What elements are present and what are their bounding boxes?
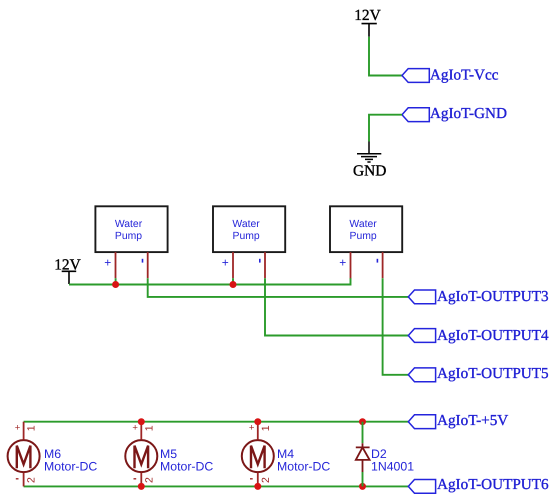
svg-text:AgIoT-GND: AgIoT-GND <box>430 105 507 122</box>
junction M5 pin1 / +5V rail <box>138 418 145 425</box>
svg-text:1N4001: 1N4001 <box>371 460 414 474</box>
svg-text:1: 1 <box>143 425 155 431</box>
wire +5V top rail <box>24 421 409 423</box>
svg-text:AgIoT-OUTPUT4: AgIoT-OUTPUT4 <box>437 327 549 344</box>
svg-text:Water: Water <box>232 219 260 230</box>
net label AgIoT-GND <box>402 105 507 122</box>
diode D2 <box>356 443 414 473</box>
svg-text:1: 1 <box>26 425 38 431</box>
svg-text:Water: Water <box>349 219 377 230</box>
svg-text:12V: 12V <box>354 7 381 24</box>
svg-text:Motor-DC: Motor-DC <box>160 460 213 474</box>
net label AgIoT-OUTPUT4 <box>408 327 549 344</box>
pin - <box>264 252 266 278</box>
svg-text:+: + <box>132 422 138 433</box>
net label AgIoT-OUTPUT5 <box>408 365 548 382</box>
svg-text:2: 2 <box>143 477 155 483</box>
net label AgIoT-OUTPUT3 <box>408 288 548 305</box>
ground GND <box>353 142 386 180</box>
diode D2 wires <box>362 422 364 444</box>
svg-text:AgIoT-OUTPUT3: AgIoT-OUTPUT3 <box>437 288 549 305</box>
junction M4 pin2 / OUTPUT6 rail <box>254 483 261 490</box>
motor M4 <box>242 422 331 487</box>
wire pump1 - to AgIoT-OUTPUT3 <box>148 278 409 297</box>
water pump P2 <box>213 206 285 278</box>
pin + <box>350 252 352 278</box>
power supply 12V (top) <box>354 7 381 37</box>
water pump P1 <box>95 206 167 278</box>
svg-text:+: + <box>104 256 111 270</box>
junction pump1 + / 12V rail <box>112 281 119 288</box>
svg-text:GND: GND <box>353 163 386 180</box>
junction D2 cathode / +5V rail <box>359 418 366 425</box>
junction pump2 + / 12V rail <box>230 281 237 288</box>
net label AgIoT-+5V <box>408 412 508 429</box>
wire pump1 + to 12V rail <box>115 278 117 284</box>
svg-text:AgIoT-OUTPUT6: AgIoT-OUTPUT6 <box>437 476 549 493</box>
wire pump3 - to AgIoT-OUTPUT5 <box>383 278 409 375</box>
pin - <box>147 252 149 278</box>
svg-text:Water: Water <box>115 219 143 230</box>
pin - <box>382 252 384 278</box>
svg-text:1: 1 <box>260 425 272 431</box>
motor M5 <box>125 422 213 487</box>
wire AgIoT-GND to ground <box>369 115 402 142</box>
net label AgIoT-OUTPUT6 <box>408 476 549 493</box>
svg-text:Pump: Pump <box>115 231 142 242</box>
wire pump2 - to AgIoT-OUTPUT4 <box>265 278 408 335</box>
wire OUTPUT6 bottom rail <box>24 485 409 487</box>
svg-text:AgIoT-+5V: AgIoT-+5V <box>437 412 508 429</box>
svg-text:AgIoT-OUTPUT5: AgIoT-OUTPUT5 <box>437 365 549 382</box>
svg-text:+: + <box>15 422 21 433</box>
wire 12V rail to pump3 + pin <box>69 278 351 285</box>
net label AgIoT-Vcc <box>402 67 499 84</box>
svg-text:+: + <box>249 422 255 433</box>
svg-text:2: 2 <box>26 477 38 483</box>
svg-text:Motor-DC: Motor-DC <box>277 460 330 474</box>
svg-text:Pump: Pump <box>350 231 377 242</box>
svg-text:+: + <box>222 256 229 270</box>
junction M5 pin2 / OUTPUT6 rail <box>138 483 145 490</box>
junction D2 anode / OUTPUT6 rail <box>359 483 366 490</box>
svg-text:AgIoT-Vcc: AgIoT-Vcc <box>430 67 499 84</box>
wire 12V to AgIoT-Vcc <box>369 37 402 76</box>
power supply 12V (middle left) <box>54 256 81 284</box>
svg-text:2: 2 <box>260 477 272 483</box>
pin + <box>115 252 117 278</box>
wire pump2 + to 12V rail <box>232 278 234 284</box>
junction M4 pin1 / +5V rail <box>254 418 261 425</box>
pin + <box>232 252 234 278</box>
svg-text:Pump: Pump <box>233 231 260 242</box>
motor M6 <box>8 422 98 487</box>
svg-text:Motor-DC: Motor-DC <box>44 460 97 474</box>
svg-text:+: + <box>339 256 346 270</box>
water pump P3 <box>330 206 402 278</box>
